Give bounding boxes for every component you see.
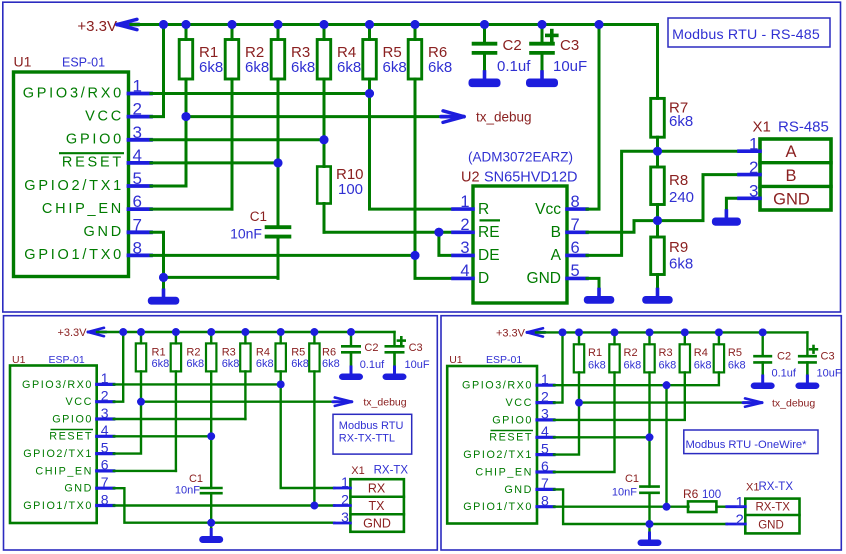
svg-text:C3: C3 <box>409 342 423 354</box>
resistor R6 6k8 <box>408 25 452 256</box>
junction dots on +3.3V rail <box>159 20 604 29</box>
svg-text:RX-TX: RX-TX <box>374 465 409 477</box>
junction RE/DE tie <box>434 228 453 256</box>
svg-text:D: D <box>478 270 489 287</box>
svg-text:+3.3V: +3.3V <box>77 18 117 35</box>
svg-text:C2: C2 <box>503 37 522 54</box>
svg-text:2: 2 <box>749 158 758 177</box>
panel border (bottom left): Modbus RTU RX-TX-TTL <box>4 316 438 550</box>
svg-text:4: 4 <box>460 262 469 280</box>
capacitor C2 0.1uf <box>472 25 531 79</box>
power arrow +3.3V (panel 3) <box>527 328 545 336</box>
ESP-01 pin 7 GND (panel 2) <box>64 474 113 495</box>
svg-text:6k8: 6k8 <box>152 358 170 370</box>
svg-text:2: 2 <box>735 512 743 529</box>
U2 pin 1 R <box>453 193 489 218</box>
resistor R2 6k8 (panel 2) <box>171 332 204 371</box>
svg-text:C1: C1 <box>625 473 639 485</box>
wire GPIO1/TX0 row to X1 TX (panel 2) <box>114 502 334 510</box>
svg-text:0.1uf: 0.1uf <box>772 368 797 380</box>
svg-text:A: A <box>551 247 562 264</box>
svg-text:R1: R1 <box>152 347 166 359</box>
svg-text:X1: X1 <box>746 482 759 494</box>
power arrow +3.3V <box>117 19 139 29</box>
svg-text:10uF: 10uF <box>817 368 842 380</box>
svg-text:5: 5 <box>101 439 109 455</box>
resistor R9 6k8 <box>651 221 693 294</box>
svg-text:6k8: 6k8 <box>186 358 204 370</box>
power arrow +3.3V (panel 2) <box>88 328 106 336</box>
ESP-01 pin 5 GPIO2/TX1 (panel 3) <box>463 440 554 461</box>
ground symbol (C2) <box>469 55 501 87</box>
wire GPIO3/RX0 (pin1) to R5 node <box>151 89 374 98</box>
svg-text:6k8: 6k8 <box>245 59 269 76</box>
svg-text:GPIO3/RX0: GPIO3/RX0 <box>22 379 93 391</box>
svg-text:100: 100 <box>702 489 721 501</box>
svg-text:GPIO3/RX0: GPIO3/RX0 <box>23 85 124 101</box>
svg-text:1: 1 <box>341 474 349 490</box>
svg-text:C2: C2 <box>777 351 791 363</box>
wire R1 node to GPIO2/TX1 (panel 3) <box>554 403 579 455</box>
resistor R3 6k8 <box>271 25 315 163</box>
ground symbol C2 (panel 2) <box>339 353 363 380</box>
wire GPIO1/TX0 (pin8) row <box>151 251 420 260</box>
resistor R5 6k8 <box>363 25 407 94</box>
resistor R6 6k8 (panel 2) <box>309 332 340 506</box>
resistor R3 6k8 (panel 2) <box>206 332 239 371</box>
resistor R2 6k8 (panel 3) <box>554 332 641 472</box>
resistor R8 240 <box>651 151 694 220</box>
resistor R1 6k8 (panel 3) <box>574 332 606 402</box>
svg-text:3: 3 <box>341 509 349 525</box>
svg-text:CHIP_EN: CHIP_EN <box>475 466 533 478</box>
svg-text:R5: R5 <box>728 347 742 359</box>
arrow tx_debug (panel 2) <box>333 398 352 406</box>
ESP-01 pin 4 RESET (panel 2) <box>49 422 114 443</box>
svg-text:GND: GND <box>64 483 93 495</box>
svg-text:6k8: 6k8 <box>291 358 309 370</box>
resistor R4 6k8 (panel 2) <box>240 332 273 371</box>
X1 pin 2 (panel 3) <box>727 512 746 529</box>
panel border (bottom right): Modbus RTU -OneWire* <box>441 316 841 550</box>
svg-text:ESP-01: ESP-01 <box>49 354 85 366</box>
resistor R6 100 (panel 3) <box>683 487 727 512</box>
wire U2 A to X1 pin 1 (net A) <box>587 151 739 255</box>
wire R1 node down to GPIO2/TX1 (pin5) <box>151 117 186 186</box>
svg-text:6k8: 6k8 <box>383 59 407 76</box>
svg-text:2: 2 <box>133 100 142 119</box>
svg-text:GPIO1/TX0: GPIO1/TX0 <box>24 247 124 263</box>
svg-text:7: 7 <box>133 215 142 234</box>
svg-text:X1: X1 <box>753 119 771 136</box>
svg-text:GND: GND <box>84 224 124 240</box>
svg-text:RX-TX-TTL: RX-TX-TTL <box>339 433 395 445</box>
svg-text:A: A <box>785 143 796 161</box>
svg-text:Modbus RTU: Modbus RTU <box>339 420 404 432</box>
ground symbol (ESP GND) <box>148 277 180 304</box>
svg-text:4: 4 <box>541 423 549 439</box>
wire node B to X1 pin 2 <box>658 175 740 221</box>
svg-text:6k8: 6k8 <box>256 358 274 370</box>
svg-text:8: 8 <box>571 193 580 211</box>
wire tx_debug net from R1 <box>182 112 443 121</box>
svg-text:VCC: VCC <box>85 108 124 124</box>
svg-text:ESP-01: ESP-01 <box>486 354 522 366</box>
svg-text:RX-TX: RX-TX <box>755 501 790 513</box>
svg-text:GPIO0: GPIO0 <box>492 414 533 426</box>
IC U1 ESP-01 box (panel 3) <box>447 354 537 524</box>
capacitor C1 10nF (panel 2) <box>175 436 223 522</box>
wire R5 node down to X1 RX (panel 2) <box>281 384 335 488</box>
X1 pin 1 <box>739 135 760 154</box>
U2 pin 8 Vcc <box>535 193 587 218</box>
svg-text:C1: C1 <box>189 473 203 485</box>
svg-text:100: 100 <box>338 181 363 198</box>
wire VCC (pin2) riser to +3.3V rail <box>151 25 164 117</box>
svg-text:6k8: 6k8 <box>291 59 315 76</box>
svg-text:GND: GND <box>773 191 810 209</box>
svg-text:4: 4 <box>101 422 109 438</box>
arrow tx_debug (panel 3) <box>743 398 762 406</box>
svg-text:U1: U1 <box>12 354 26 366</box>
ground symbol (panel 3) <box>638 524 662 546</box>
svg-text:7: 7 <box>541 475 549 491</box>
svg-text:RX-TX: RX-TX <box>759 481 794 493</box>
X1 pin 1 (panel 3) <box>727 494 746 511</box>
junction node B (R8/R9) <box>653 216 662 225</box>
svg-text:GND: GND <box>527 270 561 287</box>
resistor R4 6k8 <box>317 25 361 140</box>
ESP-01 pin 5 GPIO2/TX1 <box>24 169 151 194</box>
resistor R1 6k8 <box>179 25 223 117</box>
ground symbol (C3) <box>526 55 558 87</box>
svg-text:R8: R8 <box>669 172 688 189</box>
wire GND (pin7) to ground <box>151 232 164 277</box>
junction dots (redraw on top) <box>119 20 766 528</box>
svg-text:R6: R6 <box>322 347 336 359</box>
IC U1 ESP-01 box <box>14 54 129 277</box>
svg-text:U2: U2 <box>461 170 480 186</box>
ground symbol C3 (panel 3) <box>795 363 819 389</box>
wire GPIO3/RX0 row (panel 2) <box>114 381 285 389</box>
svg-text:R2: R2 <box>624 347 638 359</box>
connector X1 RS-485 <box>753 119 832 211</box>
svg-text:GPIO2/TX1: GPIO2/TX1 <box>23 448 93 460</box>
ESP-01 pin 3 GPIO0 (panel 2) <box>52 405 114 426</box>
wire +3.3V rail (panel 3) <box>536 331 807 333</box>
svg-text:R1: R1 <box>588 347 602 359</box>
resistor R5 6k8 (panel 3) <box>714 332 746 372</box>
resistor R10 100 <box>317 140 363 232</box>
capacitor C3 10uF (polarized) <box>529 25 587 79</box>
ESP-01 pin 4 RESET (panel 3) <box>489 423 554 444</box>
wire R5 node down to U2 R input <box>370 94 454 210</box>
svg-text:R9: R9 <box>669 239 688 256</box>
X1 pin 2 (panel 2) <box>334 491 350 507</box>
svg-text:5: 5 <box>133 169 142 188</box>
ESP-01 pin 1 GPIO3/RX0 (panel 2) <box>22 370 114 391</box>
wire R2 to CHIP_EN (panel 2) <box>114 371 176 471</box>
svg-text:tx_debug: tx_debug <box>363 397 406 409</box>
svg-text:4: 4 <box>133 146 142 165</box>
svg-text:7: 7 <box>571 216 580 234</box>
net label tx_debug (panel 2) <box>363 397 406 409</box>
svg-text:(ADM3072EARZ): (ADM3072EARZ) <box>468 150 573 165</box>
svg-text:6k8: 6k8 <box>669 256 693 273</box>
svg-text:2: 2 <box>460 216 469 234</box>
svg-text:Modbus RTU - RS-485: Modbus RTU - RS-485 <box>672 27 820 43</box>
capacitor C3 10uF (panel 2) <box>385 332 430 374</box>
svg-text:X1: X1 <box>351 465 364 477</box>
wire tx_debug from R1 (panel 3) <box>575 399 748 407</box>
capacitor C2 0.1uf (panel 3) <box>753 332 797 382</box>
ESP-01 pin 1 GPIO3/RX0 (panel 3) <box>462 371 554 392</box>
wire GPIO1/TX0 row (panel 3) <box>554 503 689 511</box>
resistor R7 6k8 <box>651 25 693 152</box>
svg-text:R2: R2 <box>186 347 200 359</box>
wire ground bus from GND node to C1 <box>164 276 279 279</box>
svg-text:6k8: 6k8 <box>322 358 340 370</box>
svg-text:C1: C1 <box>250 209 267 224</box>
ESP-01 pin 6 CHIP_EN (panel 3) <box>475 458 554 479</box>
svg-text:U1: U1 <box>449 354 463 366</box>
wire +3.3V rail <box>131 23 658 26</box>
svg-text:6k8: 6k8 <box>659 359 677 371</box>
U2 pin 7 B <box>551 216 587 241</box>
power net +3.3V label <box>77 18 117 35</box>
svg-text:8: 8 <box>101 491 109 507</box>
junction C1/ground (panel 2) <box>207 519 215 527</box>
svg-text:10uF: 10uF <box>553 58 587 75</box>
svg-text:VCC: VCC <box>506 397 533 409</box>
svg-text:C3: C3 <box>821 351 835 363</box>
frame label box: Modbus RTU -OneWire* <box>684 430 818 454</box>
svg-text:3: 3 <box>133 123 142 142</box>
svg-text:RESET: RESET <box>62 155 124 171</box>
ground symbol (panel 2) <box>199 523 223 543</box>
svg-text:3: 3 <box>101 405 109 421</box>
wire U2 B to R8/R9 node <box>587 221 658 233</box>
svg-text:6k8: 6k8 <box>624 359 642 371</box>
wire GPIO3/RX0 row to R5 (panel 3) <box>554 372 719 385</box>
ESP-01 pin 7 GND <box>84 215 151 240</box>
svg-text:R5: R5 <box>291 347 305 359</box>
svg-text:B: B <box>551 224 561 241</box>
ground symbol (X1 GND) <box>712 211 741 226</box>
svg-text:RE: RE <box>478 224 500 241</box>
U2 pin 5 GND <box>527 262 587 287</box>
wire R1 node to GPIO2/TX1 (panel 2) <box>114 402 141 454</box>
svg-text:6k8: 6k8 <box>222 358 240 370</box>
svg-text:6: 6 <box>571 239 580 257</box>
wire VCC riser (panel 2) <box>114 332 123 402</box>
capacitor C3 10uF (panel 3) <box>798 332 842 382</box>
X1 pin 3 (panel 2) <box>334 509 350 525</box>
junction RX0/OneWire node (panel 3) <box>663 381 671 506</box>
svg-text:U1: U1 <box>14 54 32 70</box>
power net +3.3V label (panel 2) <box>57 327 87 339</box>
svg-text:GND: GND <box>363 517 391 531</box>
svg-text:5: 5 <box>541 440 549 456</box>
X1 pin 1 (panel 2) <box>334 474 350 490</box>
svg-text:C2: C2 <box>364 342 378 354</box>
svg-text:1: 1 <box>541 371 549 387</box>
ESP-01 pin 7 GND (panel 3) <box>504 475 554 496</box>
svg-text:1: 1 <box>735 494 743 511</box>
IC U1 ESP-01 box (panel 2) <box>10 354 97 523</box>
svg-text:R3: R3 <box>659 347 673 359</box>
svg-text:R4: R4 <box>256 347 270 359</box>
svg-text:1: 1 <box>460 193 469 211</box>
panel border (top): Modbus RTU - RS-485 schematic <box>3 2 841 312</box>
wire RESET row (panel 3) <box>554 433 653 441</box>
U2 pin 3 DE <box>453 239 500 264</box>
X1 pin 2 <box>739 158 760 177</box>
ESP-01 pin 2 VCC (panel 3) <box>506 388 554 409</box>
svg-text:240: 240 <box>669 189 694 206</box>
wire GND to ground bus (panel 3) <box>554 489 727 524</box>
svg-text:CHIP_EN: CHIP_EN <box>35 465 93 477</box>
X1 pin 3 <box>739 182 760 201</box>
ESP-01 pin 2 VCC (panel 2) <box>66 388 114 409</box>
svg-text:3: 3 <box>460 239 469 257</box>
svg-text:6k8: 6k8 <box>199 59 223 76</box>
svg-text:6: 6 <box>541 458 549 474</box>
svg-text:6k8: 6k8 <box>669 113 693 130</box>
svg-text:GPIO2/TX1: GPIO2/TX1 <box>24 178 124 194</box>
power net +3.3V label (panel 3) <box>496 328 526 340</box>
svg-text:B: B <box>785 167 796 185</box>
svg-text:8: 8 <box>541 493 549 509</box>
svg-text:CHIP_EN: CHIP_EN <box>42 201 124 217</box>
connector X1 RX-TX (panel 2) <box>350 465 408 532</box>
svg-text:10nF: 10nF <box>175 485 200 497</box>
svg-text:0.1uf: 0.1uf <box>497 58 531 75</box>
U2 pin 2 RE <box>453 216 500 241</box>
capacitor C2 0.1uf (panel 2) <box>341 332 385 374</box>
svg-text:3: 3 <box>541 406 549 422</box>
svg-text:8: 8 <box>133 238 142 257</box>
svg-text:1: 1 <box>749 135 758 154</box>
svg-text:RS-485: RS-485 <box>778 119 829 136</box>
svg-text:R4: R4 <box>694 347 708 359</box>
resistor R2 6k8 <box>225 25 269 210</box>
resistor R4 6k8 (panel 3) <box>554 332 712 420</box>
net label tx_debug <box>476 110 532 125</box>
svg-text:5: 5 <box>571 262 580 280</box>
svg-text:6k8: 6k8 <box>728 359 746 371</box>
svg-text:RX: RX <box>368 482 386 496</box>
wire TX0 to U2 D input <box>415 255 453 278</box>
svg-text:2: 2 <box>101 388 109 404</box>
svg-text:DE: DE <box>478 247 500 264</box>
svg-text:7: 7 <box>101 474 109 490</box>
svg-text:2: 2 <box>541 388 549 404</box>
wire U2 GND down <box>587 278 599 294</box>
svg-text:6k8: 6k8 <box>337 59 361 76</box>
junction GND/C1 bus <box>159 273 168 282</box>
ESP-01 pin 5 GPIO2/TX1 (panel 2) <box>23 439 114 460</box>
capacitor C1 10nF (panel 3) <box>612 437 660 524</box>
wire RESET (pin4) row <box>151 158 283 167</box>
ESP-01 pin 4 RESET <box>59 146 151 171</box>
svg-text:RESET: RESET <box>489 432 533 444</box>
ESP-01 pin 1 GPIO3/RX0 <box>23 77 151 102</box>
ESP-01 pin 3 GPIO0 <box>66 123 151 148</box>
junction C1/ground (panel 3) <box>646 520 654 528</box>
svg-text:C3: C3 <box>560 37 579 54</box>
ESP-01 pin 6 CHIP_EN (panel 2) <box>35 457 113 478</box>
svg-text:TX: TX <box>369 499 386 513</box>
svg-text:GPIO3/RX0: GPIO3/RX0 <box>462 380 533 392</box>
resistor R1 6k8 (panel 2) <box>136 332 169 402</box>
ESP-01 pin 8 GPIO1/TX0 <box>24 238 151 263</box>
svg-text:6k8: 6k8 <box>694 359 712 371</box>
wire GPIO0 (pin3) row <box>151 135 329 144</box>
ground symbol (R9) <box>642 290 673 304</box>
svg-text:GPIO1/TX0: GPIO1/TX0 <box>463 501 533 513</box>
svg-text:1: 1 <box>133 77 142 96</box>
U2 pin 6 A <box>551 239 587 264</box>
resistor R5 6k8 (panel 2) <box>276 332 309 384</box>
frame label box: Modbus RTU - RS-485 <box>668 18 830 47</box>
svg-text:6: 6 <box>133 192 142 211</box>
ground symbol C2 (panel 3) <box>751 363 775 389</box>
svg-text:Vcc: Vcc <box>535 201 561 218</box>
wire RESET row (panel 2) <box>114 371 215 440</box>
wire +3.3V rail (panel 2) <box>97 331 395 333</box>
ESP-01 pin 2 VCC <box>85 100 151 125</box>
wire GPIO0 row (panel 2) <box>114 371 246 419</box>
resistor R3 6k8 (panel 3) <box>644 332 676 437</box>
svg-text:GPIO2/TX1: GPIO2/TX1 <box>463 449 533 461</box>
svg-text:GPIO0: GPIO0 <box>66 132 124 148</box>
svg-text:+3.3V: +3.3V <box>57 327 87 339</box>
frame label box: Modbus RTU RX-TX-TTL <box>333 414 412 454</box>
svg-text:2: 2 <box>341 491 349 507</box>
svg-text:6: 6 <box>101 457 109 473</box>
svg-text:tx_debug: tx_debug <box>476 110 532 125</box>
wire U2 Vcc riser to rail <box>587 25 599 210</box>
ESP-01 pin 8 GPIO1/TX0 (panel 3) <box>463 493 554 514</box>
ESP-01 pin 6 CHIP_EN <box>42 192 151 217</box>
svg-text:VCC: VCC <box>66 396 93 408</box>
svg-text:10uF: 10uF <box>405 359 430 371</box>
capacitor C1 10nF <box>230 163 291 279</box>
svg-text:SN65HVD12D: SN65HVD12D <box>484 170 578 186</box>
ESP-01 pin 3 GPIO0 (panel 3) <box>492 406 554 427</box>
ESP-01 pin 8 GPIO1/TX0 (panel 2) <box>23 491 114 512</box>
junction dots on rail (panel 3) <box>559 329 767 337</box>
svg-text:R3: R3 <box>222 347 236 359</box>
wire X1 pin 3 to ground <box>726 198 739 216</box>
svg-text:3: 3 <box>749 182 758 201</box>
svg-text:+3.3V: +3.3V <box>496 328 526 340</box>
net label tx_debug (panel 3) <box>772 398 815 410</box>
svg-text:10nF: 10nF <box>612 487 637 499</box>
svg-text:0.1uf: 0.1uf <box>360 359 385 371</box>
svg-text:R6: R6 <box>683 487 699 501</box>
junction dots on rail (panel 2) <box>119 328 355 336</box>
ground symbol C3 (panel 2) <box>383 353 407 380</box>
wire R10 to RE row of U2 <box>324 231 453 234</box>
svg-text:1: 1 <box>101 370 109 386</box>
svg-text:6k8: 6k8 <box>428 59 452 76</box>
svg-text:GPIO0: GPIO0 <box>52 413 93 425</box>
svg-text:tx_debug: tx_debug <box>772 398 815 410</box>
wire VCC riser (panel 3) <box>554 332 563 402</box>
IC U2 SN65HVD12D box <box>461 150 578 304</box>
